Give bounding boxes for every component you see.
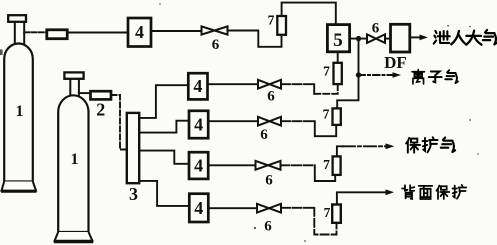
svg-text:6: 6 [212,37,220,53]
svg-text:1: 1 [71,151,79,168]
svg-text:6: 6 [267,89,275,105]
svg-text:4: 4 [194,156,203,176]
svg-text:2: 2 [96,100,105,120]
svg-text:6: 6 [265,173,273,189]
svg-text:6: 6 [260,127,268,143]
svg-text:4: 4 [194,115,203,135]
svg-text:DF: DF [384,53,407,72]
svg-text:7: 7 [323,64,330,79]
svg-text:4: 4 [135,22,144,42]
svg-text:4: 4 [193,76,202,96]
svg-text:7: 7 [268,13,275,28]
svg-text:1: 1 [16,103,24,120]
svg-text:7: 7 [324,205,331,220]
svg-text:6: 6 [264,219,272,235]
svg-text:4: 4 [194,198,203,218]
svg-text:6: 6 [372,21,380,37]
svg-text:3: 3 [129,184,138,204]
svg-text:7: 7 [323,157,330,172]
svg-text:7: 7 [323,107,330,122]
svg-text:5: 5 [333,30,343,51]
